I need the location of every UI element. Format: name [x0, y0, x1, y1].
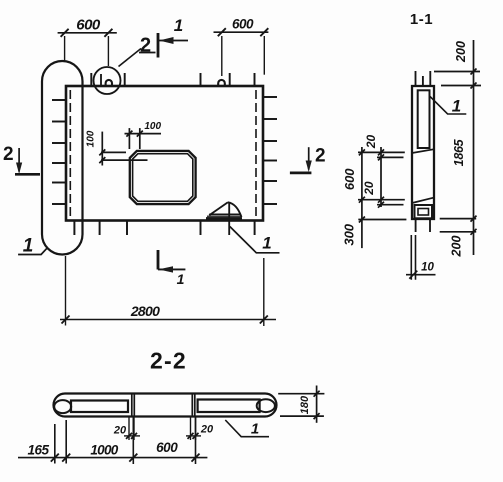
svg-text:10: 10 — [421, 262, 434, 274]
svg-text:20: 20 — [364, 135, 378, 150]
svg-text:20: 20 — [362, 181, 376, 196]
svg-text:1000: 1000 — [90, 443, 118, 458]
svg-text:600: 600 — [156, 440, 178, 455]
svg-text:2800: 2800 — [130, 303, 160, 319]
svg-text:2: 2 — [315, 146, 326, 167]
svg-text:1: 1 — [262, 234, 271, 253]
svg-text:100: 100 — [144, 121, 161, 132]
svg-text:600: 600 — [342, 168, 357, 190]
svg-text:600: 600 — [76, 17, 101, 34]
svg-text:1-1: 1-1 — [410, 11, 433, 28]
svg-text:1: 1 — [452, 97, 461, 116]
svg-text:1: 1 — [177, 271, 185, 287]
svg-text:20: 20 — [113, 425, 127, 437]
svg-text:180: 180 — [299, 395, 311, 414]
svg-text:200: 200 — [454, 41, 468, 63]
svg-text:2: 2 — [140, 35, 151, 57]
svg-text:165: 165 — [27, 443, 49, 458]
svg-text:1: 1 — [174, 16, 183, 35]
svg-text:100: 100 — [86, 130, 97, 147]
svg-text:2-2: 2-2 — [150, 348, 187, 374]
svg-text:1: 1 — [251, 421, 259, 438]
svg-text:1: 1 — [23, 236, 34, 257]
svg-text:1865: 1865 — [452, 138, 466, 166]
svg-text:300: 300 — [342, 223, 357, 245]
svg-text:200: 200 — [450, 236, 464, 258]
svg-text:600: 600 — [232, 17, 254, 32]
svg-text:2: 2 — [3, 144, 14, 165]
svg-text:20: 20 — [200, 424, 214, 436]
